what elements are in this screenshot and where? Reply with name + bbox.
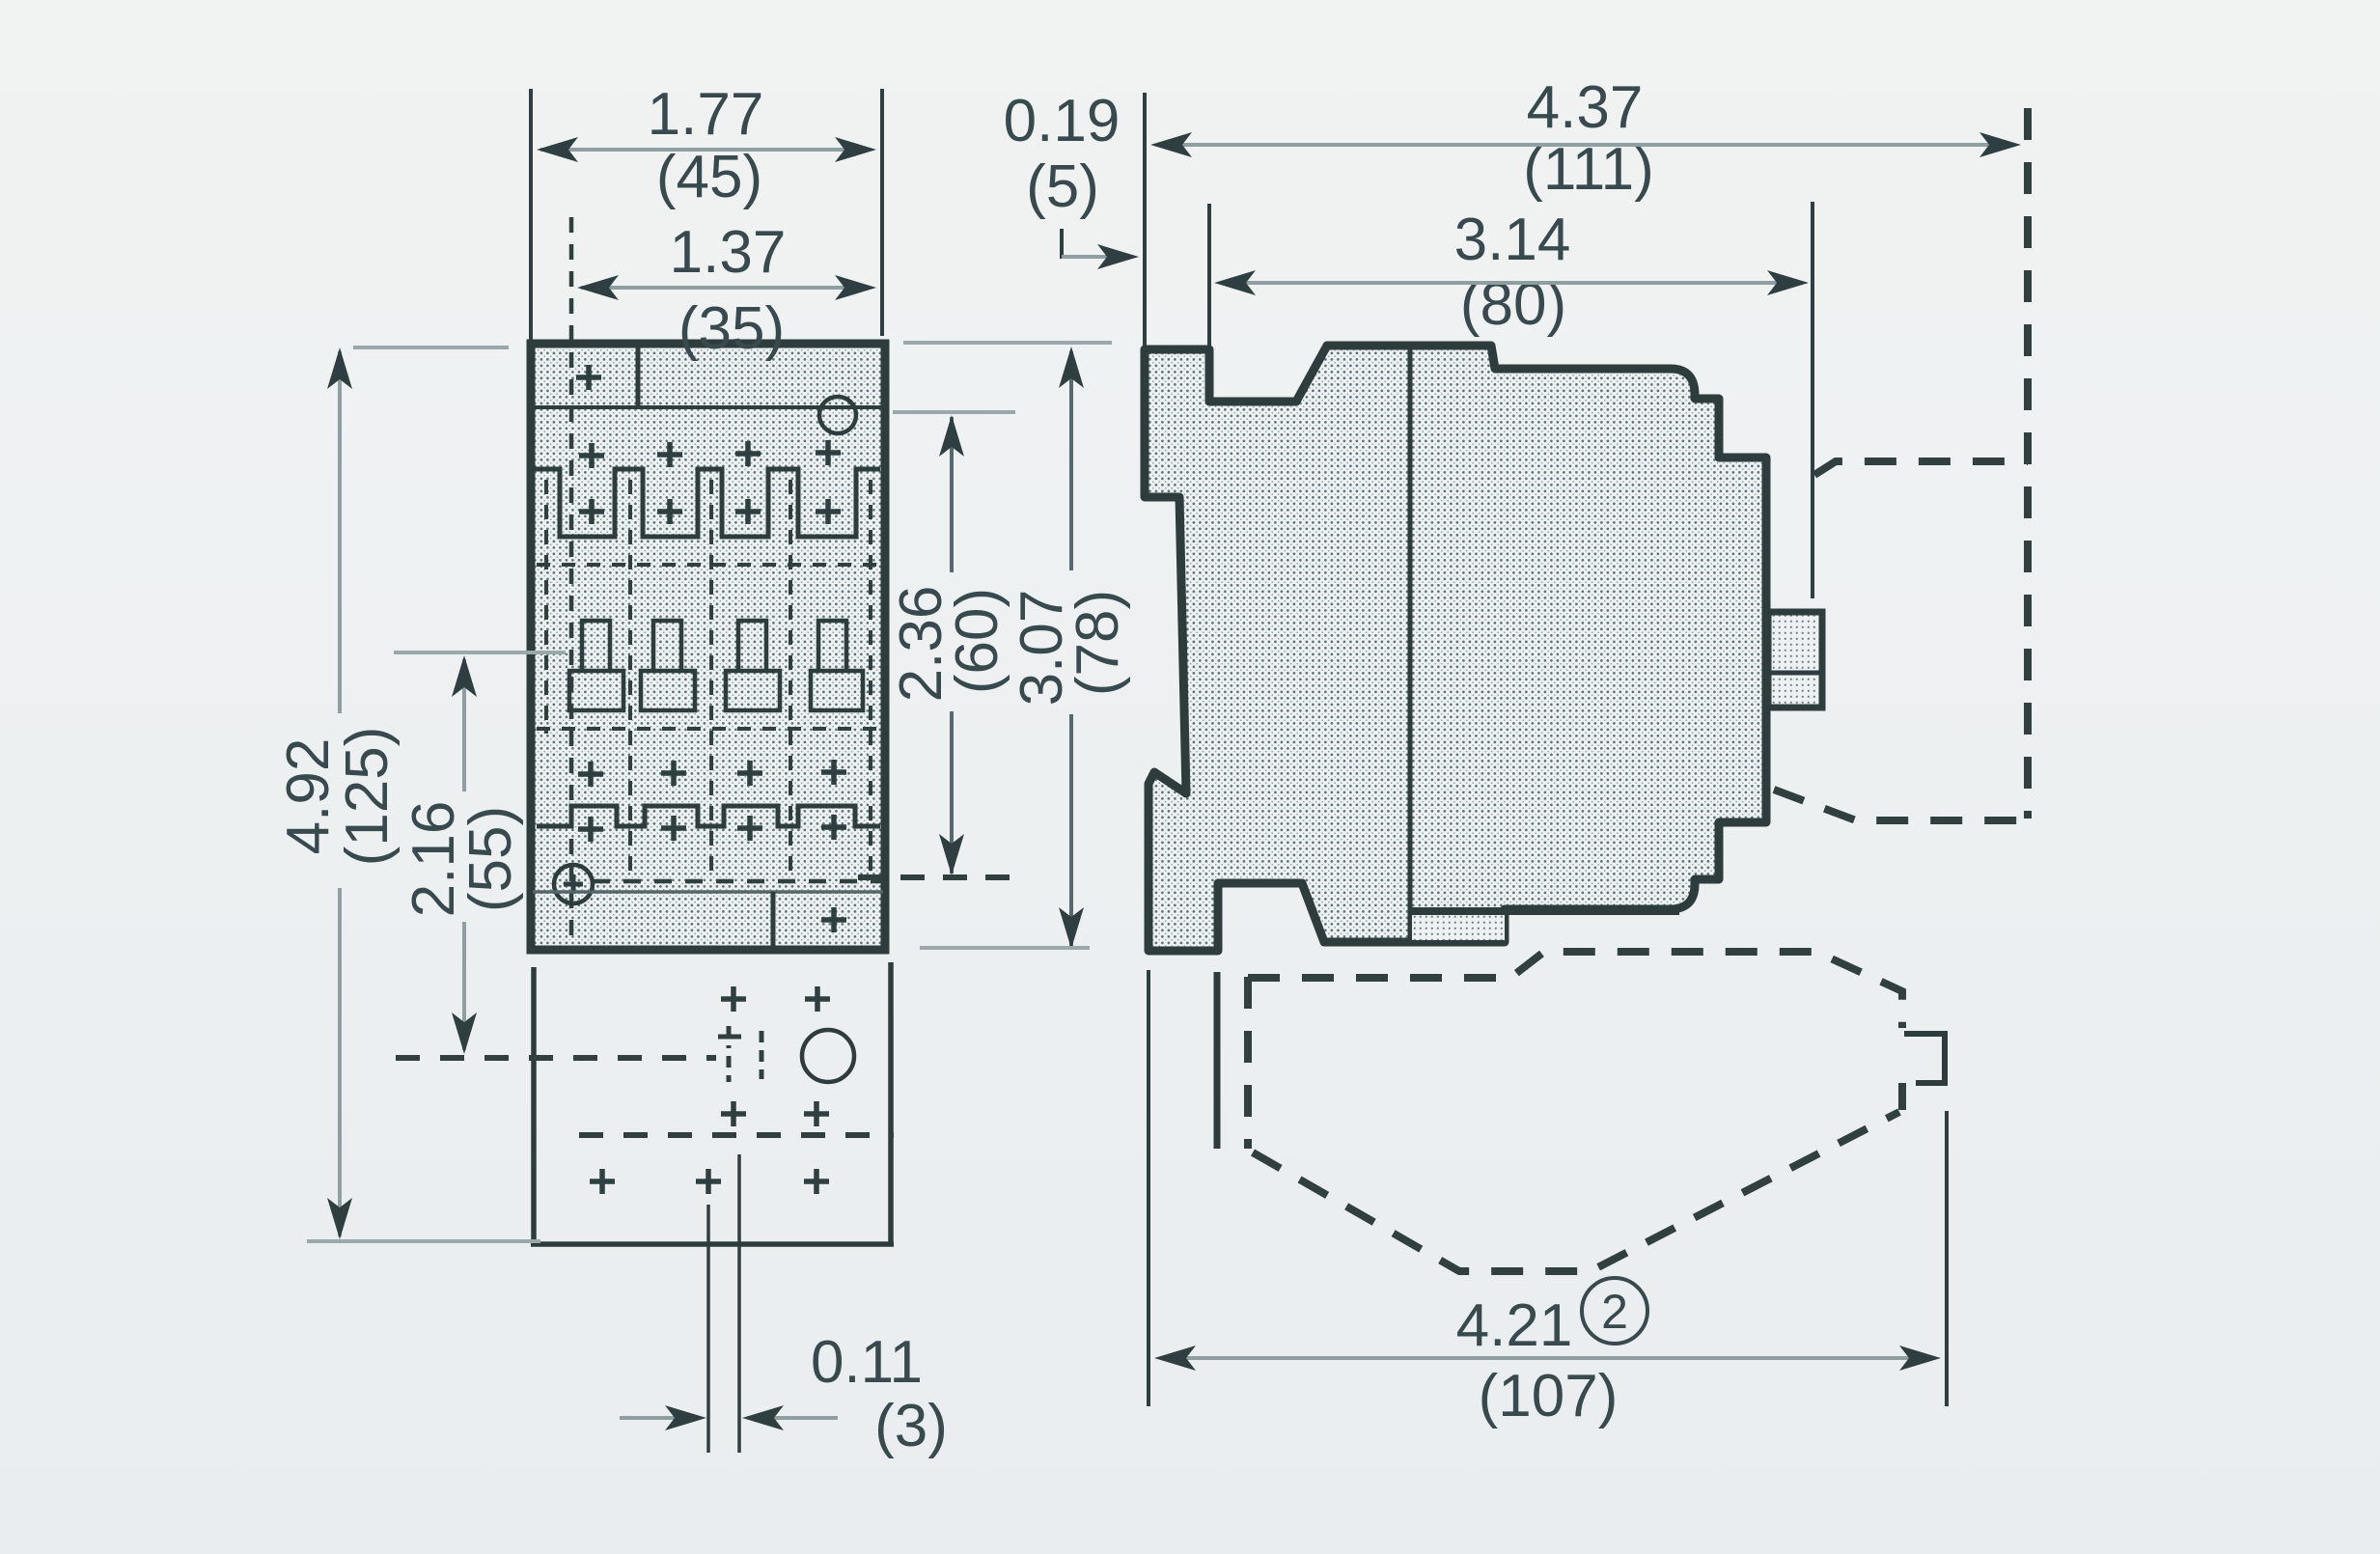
dimension 0.19 leader arrow: [1062, 229, 1139, 269]
dimension 3.07 (78) vertical arrow: [1059, 347, 1084, 949]
side view body: [1145, 346, 1766, 951]
mounting plate cross marks middle: [721, 1101, 829, 1126]
svg-text:4.37: 4.37: [1527, 74, 1644, 141]
mounting plate dashed centerline horizontal: [396, 1055, 716, 1061]
dimension 0.11 (3) arrows: [620, 1405, 838, 1430]
mounting plate circle: [802, 1030, 854, 1082]
extension line front left: [529, 89, 533, 340]
front view cross row 2: [579, 499, 841, 524]
extension line 4.21 left: [1147, 970, 1150, 1406]
front view bottom-left screw circle with cross: [554, 865, 593, 903]
extension line 4.21 right: [1945, 1111, 1949, 1406]
side view bottom line of rounded section: [1410, 907, 1679, 915]
dimension 3.07 bottom tick: [920, 946, 1090, 950]
front view top-left cross mark: [576, 365, 601, 390]
front view pole centerlines (dashed): [546, 480, 871, 874]
front view upper castellation: [531, 469, 880, 537]
front view top band divider: [636, 344, 641, 407]
svg-text:4.92: 4.92: [275, 738, 342, 855]
baseline tick bottom: [307, 1239, 540, 1243]
dimension 4.21 line with arrows: [1154, 1346, 1941, 1371]
dimension 1.37 line with arrows: [577, 275, 876, 300]
front view bottom dashed line: [593, 879, 882, 884]
front view cross row 3: [578, 760, 846, 787]
svg-text:4.21: 4.21: [1456, 1292, 1573, 1359]
dimension 3.14 line with arrows: [1214, 270, 1809, 295]
svg-text:(125): (125): [334, 727, 401, 867]
front view dashed row A: [537, 563, 878, 567]
dimension 1.77 line with arrows: [537, 137, 876, 162]
accessory solid step notch: [1904, 1034, 1945, 1083]
svg-text:1.37: 1.37: [670, 219, 787, 286]
front view body: [531, 344, 885, 950]
svg-text:0.19: 0.19: [1004, 88, 1121, 154]
svg-text:3.14: 3.14: [1454, 207, 1571, 273]
front view top-right screw circle: [819, 397, 856, 433]
circled 2 note: [1582, 1278, 1647, 1344]
extension line front right: [880, 89, 884, 336]
mounting plate outline below front view: [531, 962, 894, 1246]
front view bottom band cross: [821, 907, 846, 932]
mounting plate cross marks lower: [590, 1169, 829, 1194]
side view lower-right lighter strip: [1412, 911, 1505, 940]
svg-text:(3): (3): [874, 1393, 948, 1459]
dimension 0.11 (3) extension lines: [706, 1205, 710, 1453]
dimension 2.36 top tick: [893, 410, 1015, 414]
dimension 4.92 (125) vertical line: [327, 347, 352, 1239]
mounting plate dashed line lower: [579, 1132, 894, 1138]
svg-text:0.11: 0.11: [811, 1329, 923, 1396]
front view long centerline (dashed, 1.37 extension): [569, 217, 574, 944]
front view dashed row B: [537, 727, 878, 731]
dimension 4.37 line with arrows: [1150, 132, 2021, 157]
svg-text:(55): (55): [457, 806, 524, 912]
dimension 2.16 (55) vertical line: [452, 655, 477, 1054]
svg-text:2: 2: [1601, 1285, 1628, 1339]
front view bottom band divider: [771, 892, 776, 948]
front view cross row 4: [578, 815, 846, 842]
front view terminal screws: [569, 621, 863, 710]
svg-text:(5): (5): [1026, 153, 1099, 220]
front view top band line: [531, 405, 885, 409]
extension line 3.14 right: [1811, 202, 1814, 598]
dimension 2.16 top tick: [394, 651, 566, 654]
svg-text:(35): (35): [678, 295, 785, 362]
dimension 2.36 (60) vertical arrow: [939, 415, 964, 875]
dashed line at 2.16 bottom: [396, 1055, 454, 1061]
dimension 4.92 top tick: [353, 346, 509, 349]
extension line side view left (4.37): [1143, 93, 1147, 346]
accessory phantom outline right (dashed): [1774, 108, 2028, 820]
dimension 3.07 top tick: [903, 341, 1112, 345]
front view cross row 1: [579, 440, 841, 468]
svg-text:(78): (78): [1065, 590, 1131, 696]
front view bottom band line: [533, 890, 883, 894]
svg-text:(45): (45): [656, 144, 762, 210]
dimension 2.36 bottom dashed tick: [858, 874, 1017, 880]
mounting plate cross marks upper: [721, 986, 830, 1012]
extension line 3.14 left: [1207, 204, 1211, 346]
mounting plate small dashed slot: [718, 1026, 761, 1082]
svg-text:1.77: 1.77: [648, 81, 764, 148]
svg-text:(60): (60): [944, 588, 1010, 694]
front view lower castellation: [537, 806, 880, 826]
accessory phantom outline bottom (dashed): [1217, 952, 1902, 1271]
side view center divider line: [1408, 346, 1413, 940]
side view shaft (coil drive): [1768, 612, 1822, 708]
svg-text:(107): (107): [1479, 1363, 1619, 1429]
